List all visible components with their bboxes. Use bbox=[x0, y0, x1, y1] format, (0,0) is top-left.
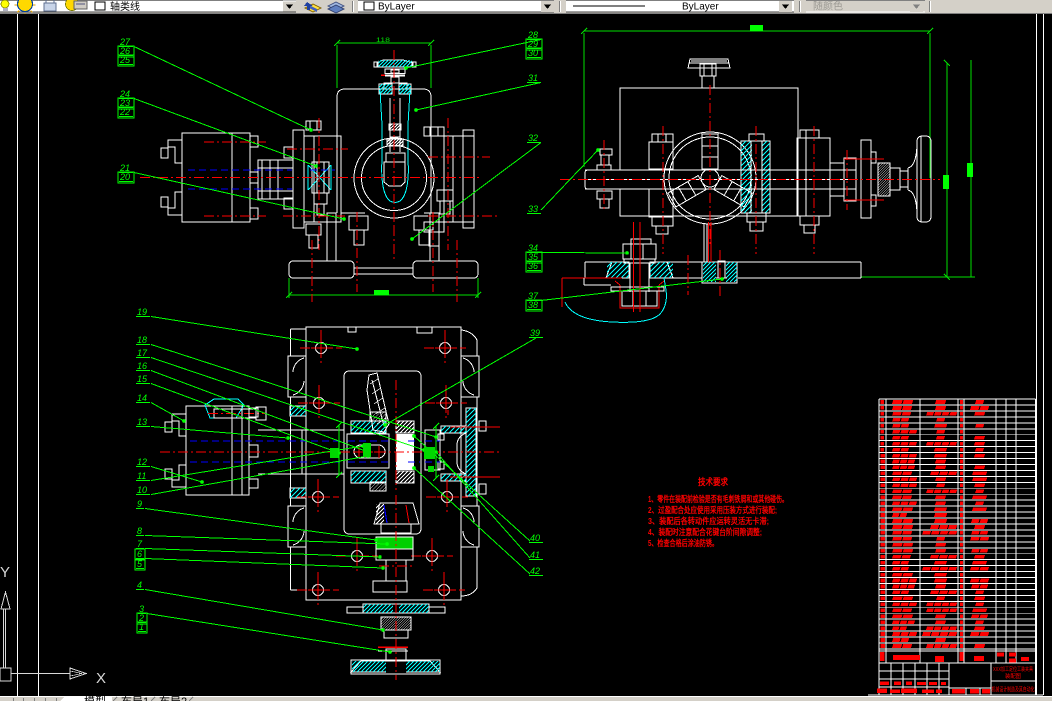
svg-text:10: 10 bbox=[137, 485, 147, 495]
front view main circle bbox=[354, 138, 434, 218]
leader 21 bbox=[134, 173, 344, 220]
side column bolt bbox=[749, 134, 764, 141]
svg-text:9: 9 bbox=[137, 499, 142, 509]
svg-text:轴类线: 轴类线 bbox=[110, 0, 140, 13]
plan green nut bbox=[376, 537, 413, 549]
make layer current icon bbox=[304, 2, 321, 12]
svg-text:机械设计制造及其自动化: 机械设计制造及其自动化 bbox=[992, 686, 1035, 694]
side clamp red outline bbox=[562, 277, 622, 279]
side hub steps bbox=[890, 168, 900, 190]
svg-text:16: 16 bbox=[137, 361, 147, 371]
svg-text:41: 41 bbox=[530, 550, 540, 560]
model tab bbox=[60, 697, 112, 701]
layer combo box bbox=[0, 0, 296, 12]
leader 27 bbox=[134, 47, 311, 131]
leader 15 bbox=[151, 384, 339, 454]
svg-text:6: 6 bbox=[137, 549, 142, 559]
plan blade bbox=[367, 373, 389, 432]
leader 24 bbox=[134, 99, 316, 167]
front left plate bbox=[293, 130, 304, 228]
side base plate bbox=[585, 261, 622, 263]
svg-text:13: 13 bbox=[137, 417, 147, 427]
svg-text:Y: Y bbox=[0, 564, 10, 581]
svg-text:20: 20 bbox=[119, 172, 130, 182]
svg-text:22: 22 bbox=[119, 107, 130, 117]
svg-text:ByLayer: ByLayer bbox=[378, 2, 415, 13]
svg-text:XXX加工定位工装夹具: XXX加工定位工装夹具 bbox=[993, 665, 1033, 673]
plan right housing tabs bbox=[438, 434, 444, 440]
front right plate top bolt bbox=[424, 127, 444, 136]
front right plate bbox=[444, 136, 474, 222]
svg-text:4、装配时注意配合花键台阶间隙调整;: 4、装配时注意配合花键台阶间隙调整; bbox=[648, 527, 762, 537]
leader 19 bbox=[151, 317, 357, 350]
leader 39 bbox=[385, 338, 536, 425]
side right block bbox=[797, 138, 830, 216]
side dim top bbox=[584, 30, 930, 32]
svg-text:118: 118 bbox=[376, 38, 391, 44]
plan top notch bbox=[417, 327, 432, 333]
plan trumpet handwheel bbox=[386, 649, 406, 661]
front view body housing bbox=[337, 89, 431, 132]
svg-text:装配图: 装配图 bbox=[1005, 672, 1021, 680]
front plate left stub bolts bbox=[284, 147, 293, 158]
front bolt nut at plate bbox=[312, 162, 329, 193]
separator bbox=[799, 1, 801, 12]
plan white solid block bbox=[396, 434, 414, 470]
linetype combo bbox=[566, 0, 794, 12]
svg-text:1: 1 bbox=[139, 622, 144, 632]
side middle cut part bbox=[702, 262, 737, 283]
svg-text:36: 36 bbox=[528, 261, 538, 271]
front foot left bbox=[289, 261, 354, 278]
plan outer body bbox=[306, 327, 461, 600]
svg-text:4: 4 bbox=[137, 580, 142, 590]
separator bbox=[559, 1, 561, 12]
plan left hatch strips bbox=[290, 406, 306, 416]
plan red line above trumpet bbox=[378, 646, 408, 648]
leader 31 bbox=[416, 83, 541, 111]
plan left bearing arcs bbox=[293, 358, 304, 395]
svg-text:15: 15 bbox=[137, 374, 148, 384]
front pedestal columns bbox=[327, 213, 336, 261]
front dim bottom bbox=[289, 294, 478, 296]
front plate lower bolts left bbox=[306, 224, 321, 235]
leader 9 bbox=[145, 509, 376, 541]
leader 12 bbox=[151, 467, 202, 483]
svg-text:8: 8 bbox=[137, 526, 142, 536]
side base hatch wedges bbox=[606, 262, 629, 278]
plan center block with slot bbox=[347, 434, 389, 468]
plan right edge step rects bbox=[479, 421, 486, 431]
leader 41 bbox=[436, 452, 530, 558]
front handle shoulder blocks bbox=[379, 84, 392, 94]
toolbar background bbox=[0, 0, 1052, 14]
side cyan hatched column bbox=[741, 141, 770, 213]
tab bar bbox=[0, 697, 1052, 701]
sun icon bbox=[18, 0, 33, 12]
leader 13 bbox=[151, 427, 288, 439]
side clamp washer bbox=[611, 287, 664, 291]
tab nav buttons bbox=[1, 698, 14, 701]
side column under wheel bbox=[703, 224, 705, 262]
side knurl bbox=[878, 163, 890, 196]
plan left outer plate bbox=[290, 329, 292, 356]
svg-text:19: 19 bbox=[137, 307, 147, 317]
side break line cyan bbox=[565, 278, 666, 322]
leader 42 bbox=[414, 468, 530, 574]
leader 10 bbox=[151, 456, 368, 495]
front chuck jaw steps bbox=[168, 140, 182, 163]
svg-text:14: 14 bbox=[137, 393, 147, 403]
parts table header row bbox=[880, 652, 885, 661]
parts table red row content bbox=[881, 400, 885, 404]
front body lower bolts bbox=[349, 216, 368, 230]
layer previous icon bbox=[328, 2, 344, 13]
svg-text:技术要求: 技术要求 bbox=[698, 476, 729, 487]
plan chuck top clamp bbox=[205, 399, 244, 418]
plan right rail cyan hatched bbox=[466, 408, 476, 496]
svg-text:5、检查合格后涂油防锈。: 5、检查合格后涂油防锈。 bbox=[648, 538, 718, 548]
svg-text:11: 11 bbox=[137, 471, 146, 481]
leader 8 bbox=[145, 536, 387, 545]
side shaft left bolt bbox=[600, 149, 612, 155]
side clamp left step bbox=[584, 284, 611, 286]
plan inner carriage bbox=[344, 371, 421, 534]
front handle knob bbox=[386, 153, 405, 162]
front chuck body bbox=[182, 133, 232, 222]
plan bolt circles bbox=[316, 343, 327, 354]
ucs icon bbox=[1, 592, 10, 609]
plan stem centerline bbox=[395, 495, 397, 680]
front handle cap bbox=[377, 60, 413, 67]
green section blobs plan view bbox=[363, 443, 371, 457]
title block red text left grid bbox=[880, 682, 889, 686]
side wheel spokes bbox=[702, 134, 718, 169]
plan carriage top hatched lip bbox=[351, 421, 386, 433]
leader 6 bbox=[145, 559, 383, 569]
side clamp white nut bbox=[622, 291, 657, 306]
front cyan bolt section bbox=[308, 165, 331, 190]
front spindle bbox=[258, 160, 293, 199]
front red centerlines bbox=[140, 177, 480, 179]
plan red centerlines bbox=[160, 451, 500, 453]
front left plate top bolt bbox=[306, 121, 321, 130]
sheet border bottom line bbox=[868, 694, 1043, 696]
leader 14 bbox=[151, 403, 184, 422]
side body outline bbox=[620, 88, 798, 216]
printer icon bbox=[66, 0, 79, 11]
side shaft bbox=[585, 169, 856, 171]
layer combo dropdown button bbox=[283, 1, 296, 12]
side left flange bbox=[649, 142, 673, 169]
side handwheel flange bbox=[861, 140, 871, 218]
leader 16 bbox=[151, 371, 368, 453]
front handle neck bbox=[391, 77, 399, 83]
color combo bbox=[358, 0, 554, 12]
leader 32 bbox=[412, 143, 541, 240]
svg-text:12: 12 bbox=[137, 457, 147, 467]
leader 40 bbox=[414, 436, 530, 541]
plan right red horizontals bbox=[450, 426, 500, 428]
title block red text center bottom bbox=[952, 689, 965, 694]
front handle cap collar bbox=[385, 69, 405, 74]
side knob bbox=[688, 59, 730, 68]
svg-text:39: 39 bbox=[530, 328, 540, 338]
leader 34 bbox=[541, 252, 627, 255]
plan right C-housing bbox=[441, 426, 466, 433]
front chuck face bolts bbox=[250, 136, 258, 147]
separator bbox=[352, 1, 354, 12]
plan hatch mount plate bbox=[363, 604, 429, 613]
layer color swatch bbox=[95, 2, 105, 10]
leader 28 bbox=[406, 40, 541, 69]
front blue hidden lines bbox=[188, 169, 292, 171]
leader 33 bbox=[541, 150, 598, 210]
side right small parts on shaft bbox=[830, 163, 844, 196]
svg-text:18: 18 bbox=[137, 335, 147, 345]
side wheel circle bbox=[664, 132, 756, 224]
plan stem parts bbox=[376, 549, 413, 560]
svg-text:1、零件在装配前检验是否有毛刺铁屑和或其他碰伤。: 1、零件在装配前检验是否有毛刺铁屑和或其他碰伤。 bbox=[648, 494, 788, 504]
leader 17 bbox=[151, 358, 424, 451]
plan chuck face bolts bbox=[249, 408, 258, 417]
svg-text:30: 30 bbox=[528, 48, 538, 58]
side red centerlines bbox=[560, 179, 940, 181]
parts table grid bbox=[879, 398, 1036, 400]
front handle inner stem bbox=[389, 98, 391, 152]
svg-text:X: X bbox=[96, 670, 106, 687]
leader 11 bbox=[151, 446, 363, 481]
leader 3 bbox=[147, 614, 390, 653]
bulb icon bbox=[1, 0, 9, 8]
svg-text:随颜色: 随颜色 bbox=[813, 0, 843, 13]
svg-text:2、过盈配合处应使用采用压装方式进行装配;: 2、过盈配合处应使用采用压装方式进行装配; bbox=[648, 505, 777, 515]
svg-text:38: 38 bbox=[528, 300, 538, 310]
svg-text:布局1: 布局1 bbox=[121, 695, 149, 701]
plan shaft bbox=[258, 429, 344, 431]
svg-text:17: 17 bbox=[137, 348, 148, 358]
lock icon bbox=[44, 3, 56, 11]
plan knurl collar bbox=[381, 617, 411, 630]
side dim right verticals bbox=[946, 63, 948, 277]
plan chuck bbox=[186, 406, 232, 495]
svg-text:40: 40 bbox=[530, 533, 540, 543]
plan bottom stem assembly bbox=[374, 503, 419, 524]
side clamp bolt bbox=[631, 239, 651, 244]
svg-text:32: 32 bbox=[528, 133, 538, 143]
svg-text:33: 33 bbox=[528, 204, 538, 214]
leader 18 bbox=[151, 345, 436, 438]
front plate lower bolts right bbox=[437, 190, 453, 201]
svg-text:3、装配后各转动件应运转灵活无卡滞;: 3、装配后各转动件应运转灵活无卡滞; bbox=[648, 516, 769, 526]
front handle cyan outline bbox=[380, 90, 410, 203]
title block grid bbox=[890, 663, 892, 695]
svg-text:模型: 模型 bbox=[84, 694, 106, 701]
sheet border left lines bbox=[17, 14, 19, 696]
svg-text:布局2: 布局2 bbox=[159, 695, 187, 701]
svg-text:31: 31 bbox=[528, 73, 538, 83]
front spindle couplings bbox=[261, 160, 263, 199]
plan blue hidden bbox=[190, 440, 340, 442]
front view dim 118 top bbox=[337, 42, 431, 44]
plan right outer plate bbox=[476, 340, 478, 356]
plan left wing notches bbox=[288, 356, 306, 397]
front foot bar bbox=[354, 268, 413, 274]
sheet border right lines bbox=[1036, 14, 1038, 695]
front foot right bbox=[413, 261, 478, 278]
plan right wing notches bbox=[461, 356, 479, 397]
svg-text:25: 25 bbox=[119, 55, 131, 65]
leader 37 bbox=[541, 279, 722, 301]
side trumpet handwheel bbox=[908, 140, 917, 218]
lineweight combo disabled bbox=[806, 0, 925, 12]
svg-text:42: 42 bbox=[530, 566, 540, 576]
svg-text:ByLayer: ByLayer bbox=[682, 2, 719, 13]
